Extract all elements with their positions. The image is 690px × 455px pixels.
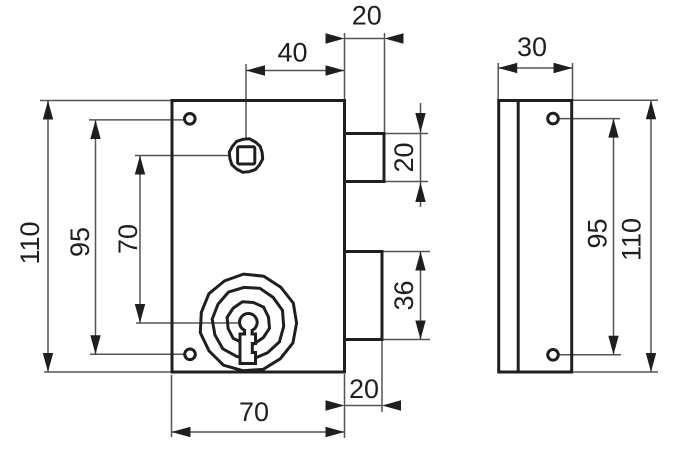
svg-text:20: 20: [349, 374, 379, 404]
dimension 20 top right arrow: [385, 33, 404, 43]
dimension 110 left line: [47, 101, 49, 373]
dimension 30 right extension: [572, 63, 574, 99]
dead bolt: [345, 252, 383, 340]
dimension 30 line: [498, 67, 572, 69]
dimension 40 right arrow: [326, 65, 345, 75]
screw hole side bottom: [548, 350, 559, 361]
dimension 110 left bottom arrow: [43, 353, 53, 372]
extension line deadbolt bottom: [383, 339, 430, 341]
dimension 36 line: [420, 252, 422, 340]
latch bolt: [345, 134, 385, 182]
dimension 40 left arrow: [246, 65, 265, 75]
extension line spindle horizontal: [135, 155, 230, 157]
svg-text:95: 95: [583, 218, 613, 248]
lock body side view: [499, 101, 572, 373]
extension line side view bottom right: [573, 371, 658, 373]
extension line spindle vertical: [245, 64, 247, 140]
svg-text:70: 70: [239, 397, 269, 427]
extension line body top left: [40, 100, 172, 102]
side view faceplate line: [517, 101, 520, 373]
extension line body bottom-left vertical: [171, 375, 173, 437]
dimension 110 right line: [650, 100, 652, 372]
dimension 20 bottom left arrow: [326, 400, 345, 410]
extension line body right top: [344, 33, 346, 100]
keyhole: [240, 314, 258, 364]
extension line latch bottom: [385, 181, 428, 183]
dimension 110 left top arrow: [43, 101, 53, 120]
dimension 70 left top arrow: [135, 156, 145, 175]
screw hole bottom-left: [185, 349, 196, 360]
dimension 30 left extension: [497, 63, 499, 99]
extension line body right bottom: [344, 374, 346, 438]
svg-text:70: 70: [113, 224, 143, 254]
svg-text:20: 20: [389, 142, 419, 172]
extension line screw hole top-right: [559, 118, 620, 120]
dimension 70 left line: [139, 156, 141, 324]
extension line deadbolt right vertical: [381, 341, 383, 412]
svg-text:20: 20: [352, 1, 382, 31]
dimension 20 top left arrow: [326, 33, 345, 43]
dimension 110 right bottom arrow: [646, 353, 656, 372]
dimension 95 right top arrow: [608, 119, 618, 138]
dimension 36 bottom arrow: [415, 321, 425, 340]
dimension 95 left line: [95, 120, 97, 354]
screw hole top-left: [185, 114, 196, 125]
dimension 95 left top arrow: [90, 120, 100, 139]
extension line screw hole bottom-right: [559, 354, 621, 356]
dimension 36 top arrow: [415, 252, 425, 271]
dimension 70 left bottom arrow: [135, 304, 145, 323]
dimension 30 left arrow: [498, 63, 517, 73]
dimension 30 right arrow: [554, 63, 573, 73]
lock body front view: [172, 101, 345, 373]
extension line deadbolt top: [383, 251, 430, 253]
extension line screw hole top-left: [89, 119, 183, 121]
dimension 95 right line: [613, 119, 615, 355]
extension line keyhole horizontal: [136, 322, 240, 324]
screw hole side top: [548, 113, 559, 124]
dimension 95 right bottom arrow: [608, 336, 618, 355]
svg-text:36: 36: [389, 280, 419, 310]
spindle hole circle: [229, 139, 262, 172]
svg-text:40: 40: [277, 38, 307, 68]
dimension 70 bottom left arrow: [172, 427, 191, 437]
svg-text:110: 110: [617, 218, 647, 261]
svg-text:110: 110: [15, 221, 45, 264]
dimension 20 bottom right arrow: [382, 400, 401, 410]
extension line latch right vertical: [384, 33, 386, 133]
keyhole ring outer: [200, 274, 296, 371]
svg-text:30: 30: [517, 32, 547, 62]
svg-text:95: 95: [65, 227, 95, 257]
dimension 20 latch bottom arrow: [415, 183, 425, 203]
dimension 20 latch top arrow: [415, 113, 425, 133]
extension line screw hole bottom-left: [90, 353, 184, 355]
extension line body bottom left: [44, 371, 172, 373]
spindle square: [238, 147, 255, 164]
extension line side view top right: [573, 99, 658, 101]
dimension 20 top line: [345, 38, 385, 40]
keyhole ring middle: [212, 287, 284, 359]
keyhole ring inner: [227, 302, 269, 344]
dimension 70 bottom right arrow: [326, 427, 345, 437]
dimension 95 left bottom arrow: [90, 335, 100, 354]
dimension 20 bottom line: [345, 405, 383, 407]
dimension 70 bottom line: [172, 431, 345, 433]
extension line latch top: [385, 133, 428, 135]
dimension 110 right top arrow: [646, 100, 656, 119]
dimension 40 line: [246, 70, 345, 72]
dimension 20 latch line: [420, 103, 422, 207]
